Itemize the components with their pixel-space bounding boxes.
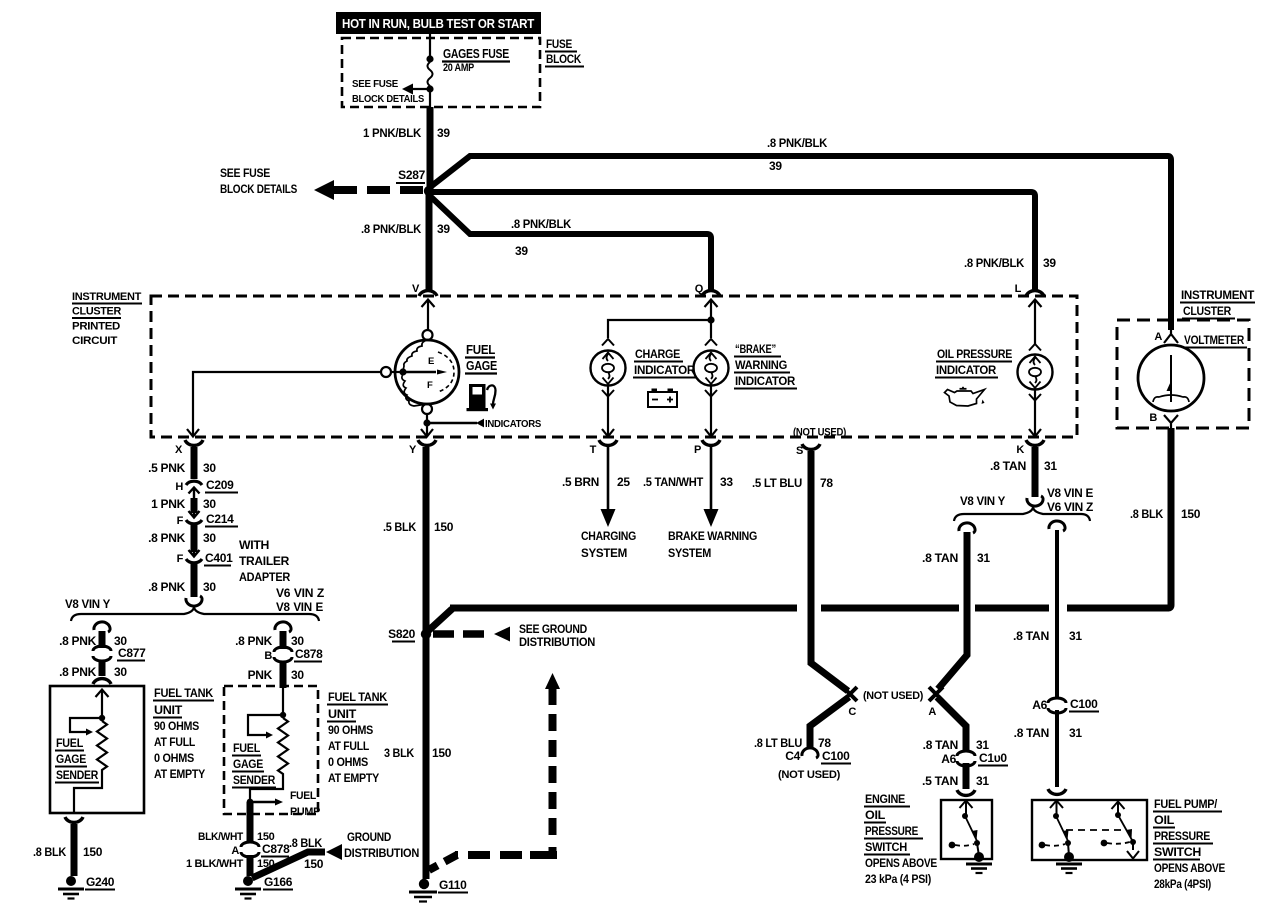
connector half C100 pin C4 [785,748,851,764]
FUEL GAGE SENDER label (left) [55,736,99,783]
svg-text:C878: C878 [295,647,323,661]
pump switch ground lead [1068,843,1069,856]
svg-text:OPENS ABOVE: OPENS ABOVE [1154,861,1225,875]
label .5 BRN 25 [562,475,630,489]
FUEL GAGE SENDER label (right) [232,741,276,788]
svg-text:20 AMP: 20 AMP [443,62,474,74]
svg-text:X: X [175,444,183,456]
label .8 PNK/BLK 39 below S287 [361,222,450,236]
instrument cluster printed circuit dashed box [151,296,1077,437]
terminal Q claw [702,291,720,296]
wire A6 to fuel pump switch [1055,710,1059,787]
svg-text:.8 LT BLU: .8 LT BLU [754,736,802,750]
svg-text:39: 39 [515,244,528,258]
svg-text:C100: C100 [1070,697,1098,711]
OIL PRESSURE INDICATOR label [935,347,1012,378]
svg-text:31: 31 [1069,629,1082,643]
svg-text:.5 BLK: .5 BLK [383,520,417,534]
right fuel tank unit dashed box [224,686,318,814]
FUEL PUMP OIL PRESSURE SWITCH note [1153,797,1225,891]
connector half hook at K split [1027,496,1043,506]
connector C878 pin A (lower) [231,842,290,857]
wire to C878 [280,631,287,649]
svg-text:OIL PRESSURE: OIL PRESSURE [937,347,1012,361]
svg-text:VOLTMETER: VOLTMETER [1184,333,1245,347]
ground bus segment 4 [1067,605,1169,612]
svg-text:F: F [427,380,433,391]
wire Q node to charge indicator [608,320,711,338]
svg-text:.5 BRN: .5 BRN [562,475,599,489]
right tank output wire [250,784,283,802]
wire charge indicator to T [607,386,609,436]
ground bus segment 2 [821,605,959,612]
svg-text:SYSTEM: SYSTEM [581,546,627,560]
label .5 LT BLU 78 [752,476,833,490]
svg-text:A: A [231,845,239,857]
splice S287 [396,168,434,196]
label .8 TAN 31 (to pump switch) [1014,726,1083,740]
svg-text:B: B [264,650,272,662]
ground G166 [235,875,293,899]
svg-text:GAGE: GAGE [233,757,263,771]
label 3 BLK 150 [384,746,452,760]
svg-text:UNIT: UNIT [328,707,357,721]
svg-text:V6 VIN Z: V6 VIN Z [276,586,324,600]
power banner HOT IN RUN [336,12,541,34]
wire S287 to V [426,194,433,290]
wire pump node through box [247,802,254,843]
label .8 PNK 30 [59,634,127,648]
svg-text:A6: A6 [1032,698,1047,712]
svg-text:(NOT USED): (NOT USED) [793,427,847,439]
svg-text:GROUND: GROUND [347,830,392,844]
dashed arrow see fuse block details [220,166,424,200]
svg-text:V8 VIN E: V8 VIN E [1047,486,1093,500]
terminal L mating arrow [1029,300,1042,345]
svg-text:C1υ0: C1υ0 [979,751,1007,765]
terminal P claw [702,440,720,445]
svg-text:INDICATOR: INDICATOR [735,374,796,388]
dashed arrow see ground distribution [433,622,595,649]
svg-text:INSTRUMENT: INSTRUMENT [1181,288,1255,302]
fuse block label [545,37,584,67]
svg-text:S287: S287 [398,168,425,182]
svg-text:150: 150 [432,746,452,760]
svg-text:HOT IN RUN, BULB TEST OR START: HOT IN RUN, BULB TEST OR START [342,17,535,31]
right tank wiper arrow [266,732,273,739]
svg-text:39: 39 [769,159,782,173]
svg-text:31: 31 [976,738,989,752]
connector half hook at split [186,596,202,606]
terminal X claw [185,440,203,445]
right tank node [280,712,286,718]
svg-text:OIL: OIL [1154,813,1174,827]
wire X to C209 [191,447,198,479]
pump switch right open contact dot [1101,840,1108,847]
engine switch dashed throw [955,844,974,846]
svg-text:INDICATOR: INDICATOR [936,363,997,377]
label .8 TAN 31 (V6 branch) [1013,629,1082,643]
svg-text:DISTRIBUTION: DISTRIBUTION [519,635,595,649]
terminal K arrow (inside cluster) [1029,429,1041,437]
svg-text:33: 33 [720,475,733,489]
svg-text:E: E [428,356,434,367]
connector A (bowtie) [929,687,943,701]
connector half hook V8 branch [959,523,975,533]
wire S down [811,451,848,691]
wire P to brake warning system [710,447,713,510]
connector C214 pin F [177,505,238,527]
svg-text:.5 PNK: .5 PNK [148,461,186,475]
svg-text:.8 PNK/BLK: .8 PNK/BLK [767,136,828,150]
svg-text:CHARGING: CHARGING [581,529,636,543]
svg-text:C401: C401 [205,551,233,565]
label .8 PNK 30 [59,665,127,679]
svg-text:AT FULL: AT FULL [154,735,195,749]
terminal L claw [1026,291,1044,296]
see fuse block details arrow (inside fuse block) [352,78,430,105]
terminal K claw [1026,440,1044,445]
ground G110 [409,878,468,902]
connector C877 [93,646,146,661]
svg-text:L: L [1015,283,1022,295]
engine oil pressure switch box [941,800,992,859]
svg-text:C209: C209 [206,478,234,492]
svg-text:PRESSURE: PRESSURE [1154,829,1210,843]
svg-text:B: B [1149,412,1157,424]
label .5 TAN/WHT 33 [643,475,733,489]
instrument cluster dashed box (voltmeter) [1117,320,1249,428]
fuel gage wiper pivot [399,368,406,375]
svg-text:PNK: PNK [248,668,273,682]
svg-text:INDICATOR: INDICATOR [634,363,696,377]
WITH TRAILER ADAPTER note [239,538,291,584]
wire C214 to C401 [191,524,198,552]
svg-text:“BRAKE”: “BRAKE” [735,342,776,356]
label PNK 30 [248,668,305,682]
voltmeter needle [1167,355,1172,402]
svg-text:PUMP: PUMP [290,806,320,818]
connector C401 pin F [177,544,234,566]
svg-text:.5 TAN/WHT: .5 TAN/WHT [643,475,704,489]
wire gage left to X leg [193,372,381,435]
engine switch pivot dot [962,813,968,819]
svg-text:30: 30 [203,461,216,475]
svg-text:FUEL: FUEL [56,736,83,750]
svg-text:31: 31 [977,551,990,565]
fuse block dashed box [342,38,540,107]
engine switch open contact dot [949,842,956,849]
fuel gage left contact circle [381,367,391,377]
label .8 PNK 30 [148,580,216,594]
wire V8 branch down [938,532,967,689]
pump switch left open contact dot [1039,842,1046,849]
brake warning indicator lamp [694,339,729,397]
pump switch right output arrow [1127,842,1139,859]
connector half hook C877 branch top [94,622,110,632]
svg-text:H: H [175,481,183,493]
fuel gage needle [403,370,447,375]
terminal Y claw [418,440,436,445]
svg-text:Q: Q [695,283,704,295]
svg-text:1 BLK/WHT: 1 BLK/WHT [186,858,244,870]
svg-text:V8 VIN Y: V8 VIN Y [960,494,1005,508]
fuel pump switch input claw [1048,789,1066,794]
label .8 TAN 31 (to A6) [923,738,990,752]
svg-text:.8 TAN: .8 TAN [922,551,958,565]
pump switch left contact dot [1065,840,1071,846]
wire C878 to G166 [247,855,254,876]
terminal B fork (voltmeter) [1164,415,1178,428]
label .8 LT BLU 78 [754,736,831,750]
fuel gage body U1 [395,340,459,404]
svg-text:FUEL: FUEL [290,790,317,802]
svg-text:.8 PNK: .8 PNK [148,580,186,594]
fuel gage bottom contact circle [422,404,432,414]
svg-text:30: 30 [203,531,216,545]
svg-text:.8 BLK: .8 BLK [33,845,67,859]
right tank pump node [247,799,254,806]
voltmeter scale arc [1153,395,1189,402]
wire V6 branch down [1055,530,1059,697]
svg-text:G240: G240 [86,875,115,889]
svg-text:78: 78 [820,476,833,490]
gages fuse 20A [426,55,433,92]
svg-text:30: 30 [114,665,127,679]
ground bus segment 3 [975,605,1049,612]
terminal Y arrow (inside cluster) [421,429,433,437]
svg-text:.8 PNK/BLK: .8 PNK/BLK [964,256,1025,270]
svg-text:TRAILER: TRAILER [239,554,290,568]
terminal S claw [802,444,820,449]
svg-text:78: 78 [818,736,831,750]
svg-text:.8 PNK: .8 PNK [148,531,186,545]
svg-text:A: A [928,706,936,718]
svg-text:150: 150 [83,845,103,859]
svg-text:0 OHMS: 0 OHMS [328,755,368,769]
svg-text:ENGINE: ENGINE [865,792,905,806]
svg-text:ADAPTER: ADAPTER [239,570,291,584]
svg-text:(NOT USED): (NOT USED) [778,769,841,781]
left tank output wire [74,776,102,813]
svg-text:1 PNK: 1 PNK [151,497,185,511]
left tank input arrow [96,690,109,719]
dashed ground distribution riser [549,688,557,844]
label .8 TAN 31 [990,459,1057,473]
label BLK/WHT 150 [198,831,275,843]
svg-text:30: 30 [203,497,216,511]
svg-text:CLUSTER: CLUSTER [72,306,121,318]
svg-text:C214: C214 [206,512,234,526]
wire T to charging system [607,447,610,510]
label 1 PNK 30 [151,497,216,511]
brake warning system arrow [704,509,719,527]
svg-text:GAGE: GAGE [56,752,86,766]
wire lower feed to Q [429,195,711,290]
svg-text:.5 LT BLU: .5 LT BLU [752,476,802,490]
svg-text:A6: A6 [941,752,956,766]
svg-text:39: 39 [437,126,450,140]
wire G166 to ground distribution [252,852,325,878]
engine oil switch input claw [957,790,975,795]
fuel gage sender resistor (left tank) [97,721,107,776]
svg-text:GAGES FUSE: GAGES FUSE [443,47,509,61]
svg-text:OIL: OIL [865,808,885,822]
engine switch ground [966,852,992,873]
splice S820 [388,627,431,642]
wire to C877 [99,631,106,648]
pump switch left dashed throw [1045,844,1065,846]
oil pressure indicator lamp [1018,344,1053,401]
connector C100 pin A6 (fuel pump switch) [1032,697,1099,713]
svg-text:F: F [177,553,184,565]
instrument cluster printed circuit label [72,291,142,347]
terminal V mating arrow (inside cluster) [422,300,435,331]
svg-text:C: C [848,706,856,718]
svg-text:30: 30 [291,634,304,648]
left fuel tank unit box [50,686,144,813]
wire C878 into tank unit [280,661,287,688]
right tank input wire [282,688,284,715]
svg-text:PRINTED: PRINTED [72,321,120,333]
svg-text:OPENS ABOVE: OPENS ABOVE [865,856,937,870]
svg-text:SYSTEM: SYSTEM [668,546,711,560]
connector half hook C878 branch top [275,622,291,632]
wire top feed .8 PNK/BLK to voltmeter [429,156,1171,330]
connector C100 pin A6 (engine switch) [941,751,1008,766]
engine option brace [71,607,319,622]
engine switch ground lead [977,843,979,856]
svg-text:.5 TAN: .5 TAN [922,774,958,788]
charge indicator lamp [591,339,626,397]
GAGES FUSE label [442,47,510,74]
svg-text:SWITCH: SWITCH [865,840,907,854]
ENGINE OIL PRESSURE SWITCH note [864,792,937,886]
svg-text:S820: S820 [388,627,415,641]
svg-text:SEE FUSE: SEE FUSE [220,166,270,180]
engine switch contact dot [974,840,980,846]
svg-text:SENDER: SENDER [56,768,99,782]
svg-text:0 OHMS: 0 OHMS [154,751,194,765]
pump switch left input arrow [1050,801,1063,817]
label .5 BLK 150 [383,520,454,534]
svg-text:.8 PNK/BLK: .8 PNK/BLK [511,217,572,231]
label 1 BLK/WHT 150 [186,858,275,870]
fuel gage resistive element lower [402,374,427,406]
svg-text:A: A [1154,331,1162,343]
svg-text:GAGE: GAGE [466,359,497,373]
svg-text:T: T [590,444,597,456]
fuel pump icon [467,384,497,411]
left tank node [99,715,105,721]
pump switch left pivot dot [1053,813,1059,819]
FUEL TANK UNIT note (left) [153,686,214,781]
BRAKE WARNING INDICATOR label [734,342,797,389]
svg-text:V6 VIN Z: V6 VIN Z [1047,500,1093,514]
terminal P arrow (inside cluster) [705,429,717,437]
pump switch left blade [1056,816,1069,841]
terminal X arrow (inside cluster) [187,429,199,437]
wire K down [1032,447,1039,497]
svg-text:BLK/WHT: BLK/WHT [198,831,244,843]
svg-text:.8 BLK: .8 BLK [289,836,323,850]
ground G240 [58,875,115,899]
svg-text:30: 30 [291,668,304,682]
fuel gage wiper lead [391,371,403,373]
label .8 PNK 30 [148,531,216,545]
left tank wiper loop [70,718,102,732]
terminal T claw [599,440,617,445]
left tank wiper arrow [86,729,93,736]
svg-text:90 OHMS: 90 OHMS [154,719,199,733]
svg-text:V8 VIN E: V8 VIN E [276,600,323,614]
svg-text:SEE FUSE: SEE FUSE [352,78,398,90]
svg-text:G166: G166 [264,875,293,889]
wire brake indicator to P [710,386,712,436]
connector C209 pin H [175,478,238,500]
fuel gage scale arc [438,352,454,392]
svg-text:.8 TAN: .8 TAN [990,459,1026,473]
svg-text:90 OHMS: 90 OHMS [328,723,373,737]
svg-text:K: K [1016,444,1024,456]
svg-text:31: 31 [1069,726,1082,740]
wire oil indicator to K [1034,390,1036,436]
svg-text:23 kPa (4 PSI): 23 kPa (4 PSI) [865,872,931,886]
wire middle feed to L [429,192,1035,290]
svg-text:SENDER: SENDER [233,773,276,787]
engine switch blade [965,816,978,841]
svg-text:DISTRIBUTION: DISTRIBUTION [344,846,419,860]
dashed ground distribution drop to G110 [429,855,457,870]
left tank terminal claw [93,679,111,684]
svg-text:V: V [412,283,420,295]
svg-text:.8 PNK: .8 PNK [59,665,97,679]
svg-text:INSTRUMENT: INSTRUMENT [72,291,142,303]
wire A to A6 [937,697,966,750]
svg-text:P: P [694,444,701,456]
svg-text:C877: C877 [118,646,146,660]
node at Q branch [707,316,714,323]
label .8 TAN 31 (V8 branch) [922,551,990,565]
wire fuse to S287 [429,89,431,107]
indicators arrow [476,419,484,428]
svg-text:.8 PNK/BLK: .8 PNK/BLK [361,222,422,236]
label .8 PNK/BLK 39 at L [964,256,1056,270]
svg-text:F: F [177,515,184,527]
terminal Q mating arrow [705,300,718,321]
CHARGING SYSTEM note [581,529,636,560]
svg-text:SEE GROUND: SEE GROUND [519,622,588,636]
svg-text:CLUSTER: CLUSTER [1183,304,1232,318]
terminal T arrow (inside cluster) [602,429,614,437]
fuel pump tap [250,790,320,818]
battery icon [648,389,677,408]
fuel pump / oil pressure switch box [1032,800,1147,860]
svg-text:PRESSURE: PRESSURE [865,824,918,838]
fuel gage sender resistor (right tank) [278,718,288,784]
dashed ground distribution riser arrow [545,673,560,689]
svg-text:25: 25 [617,475,630,489]
svg-text:150: 150 [1181,507,1201,521]
INSTRUMENT CLUSTER label (voltmeter) [1180,288,1255,319]
wire S820 to G110 [423,638,430,879]
fuel gage top contact circle [423,330,433,340]
svg-text:BLOCK DETAILS: BLOCK DETAILS [352,93,424,105]
svg-text:INDICATORS: INDICATORS [485,419,542,430]
label 1 PNK/BLK 39 [363,126,450,140]
svg-text:.8 TAN: .8 TAN [923,738,958,752]
label .5 TAN 31 [922,774,989,788]
